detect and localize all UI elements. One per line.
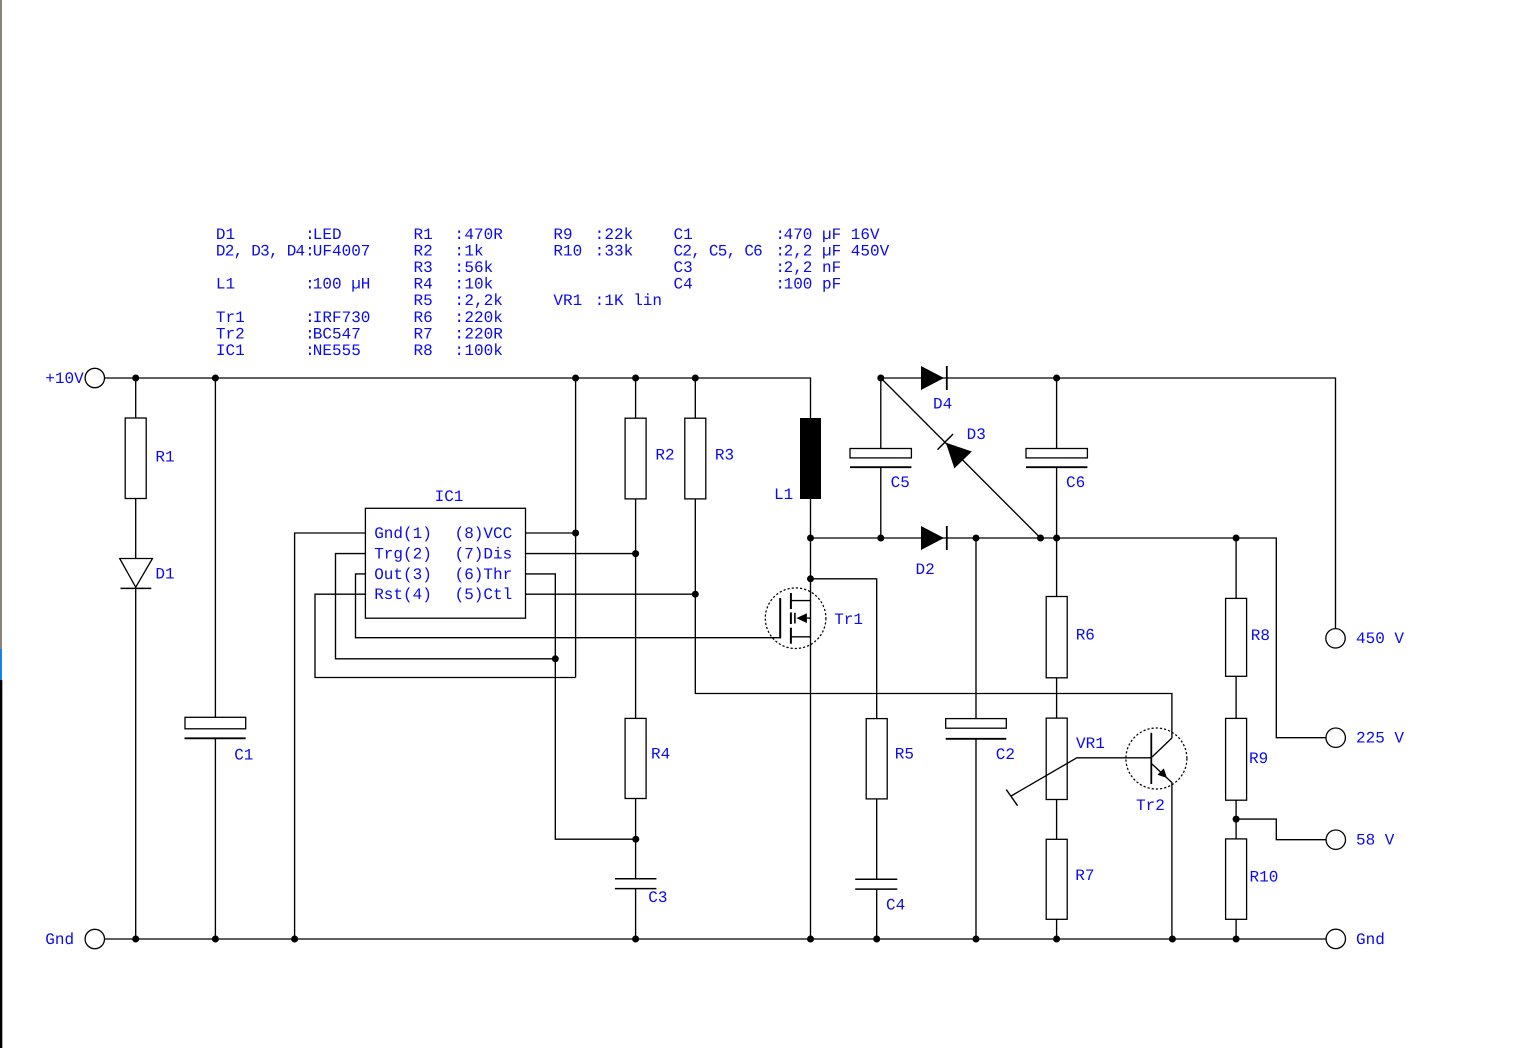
label R10 (1250, 869, 1279, 887)
svg-text:R4: R4 (651, 746, 670, 764)
svg-text:L1: L1 (774, 486, 793, 504)
svg-text::: : (454, 325, 464, 343)
junction dot Dis node (632, 550, 639, 557)
svg-text:IC1: IC1 (216, 342, 245, 360)
junction dot Ctl R3 node (692, 591, 699, 598)
svg-text:220R: 220R (464, 325, 503, 343)
IC1 NE555 box (365, 508, 525, 618)
svg-text:C4: C4 (886, 897, 905, 915)
label R2 (655, 447, 674, 465)
svg-text:R3: R3 (414, 259, 433, 277)
wire ground rail (105, 938, 1327, 940)
svg-text:R1: R1 (155, 449, 174, 467)
resistor R1 (125, 418, 146, 499)
label VR1 (1076, 735, 1105, 753)
svg-text:58 V: 58 V (1356, 832, 1395, 850)
wire C6 branch (1056, 378, 1058, 538)
label C3 (648, 889, 667, 907)
label R5 (895, 746, 914, 764)
svg-text:C2, C5, C6: C2, C5, C6 (674, 242, 763, 260)
wire R1 D1 branch (135, 378, 137, 939)
wire IC1 pin1 Gnd to ground (295, 533, 366, 939)
wire C1 branch (214, 378, 216, 939)
svg-text:C3: C3 (648, 889, 667, 907)
label D2 (916, 561, 935, 579)
junction dot R4 C3 node (632, 836, 639, 843)
svg-text:R8: R8 (1251, 627, 1270, 645)
svg-text::: : (454, 309, 464, 327)
junction dot R9 R10 node (1233, 816, 1240, 823)
svg-text:C1: C1 (674, 226, 693, 244)
label R6 (1076, 627, 1095, 645)
svg-text:R1: R1 (414, 226, 433, 244)
resistor R9 (1226, 718, 1247, 800)
svg-text:2,2 µF 450V: 2,2 µF 450V (784, 242, 890, 260)
diode D2 (921, 526, 947, 550)
svg-text::: : (595, 292, 605, 310)
svg-text:R4: R4 (414, 276, 433, 294)
wire IC1 pin3 Out to Tr1 gate (356, 574, 781, 638)
svg-text:R2: R2 (414, 242, 433, 260)
svg-text:D3: D3 (967, 426, 986, 444)
svg-text:D4: D4 (933, 396, 952, 414)
svg-text:(6)Thr: (6)Thr (455, 566, 513, 584)
svg-text:IRF730: IRF730 (313, 309, 371, 327)
terminal 450V (1326, 629, 1405, 648)
left edge strip grey (0, 0, 2, 649)
junction dot Trg Thr node (552, 655, 559, 662)
svg-text:R2: R2 (655, 447, 674, 465)
label C1 (234, 747, 253, 765)
label R3 (715, 447, 734, 465)
parts list column B values (464, 226, 503, 360)
resistor R10 (1226, 839, 1247, 919)
parts list column A values (313, 226, 371, 360)
svg-text:R10: R10 (1250, 869, 1279, 887)
label D3 (967, 426, 986, 444)
label C4 (886, 897, 905, 915)
label R8 (1251, 627, 1270, 645)
svg-text:Gnd(1): Gnd(1) (374, 525, 432, 543)
junction dots top rail (132, 375, 1060, 382)
svg-text::: : (454, 276, 464, 294)
svg-text::: : (454, 292, 464, 310)
svg-text:R5: R5 (895, 746, 914, 764)
svg-text:1K lin: 1K lin (604, 292, 662, 310)
wire C5 branch (880, 378, 882, 538)
svg-text:C2: C2 (996, 746, 1015, 764)
parts list column B names (414, 226, 433, 360)
svg-text:Tr2: Tr2 (216, 325, 245, 343)
svg-text:2,2k: 2,2k (464, 292, 502, 310)
svg-text:1k: 1k (464, 242, 483, 260)
wire R2 R4 C3 branch (635, 378, 637, 939)
parts list column B colons (454, 226, 464, 360)
label D1 (155, 566, 174, 584)
potentiometer VR1 wiper end bar (1006, 790, 1017, 806)
wire boost node rail to 225V (811, 538, 1327, 738)
svg-text:R8: R8 (414, 342, 433, 360)
resistor R4 (625, 718, 646, 798)
parts list column A colons (305, 226, 315, 360)
junction dot VCC Rst node (572, 530, 579, 537)
svg-text:D2, D3, D4: D2, D3, D4 (216, 242, 305, 260)
svg-text:22k: 22k (604, 226, 633, 244)
resistor R2 (625, 418, 646, 499)
label L1 (774, 486, 793, 504)
diode D4 (921, 366, 947, 390)
svg-text:R5: R5 (414, 292, 433, 310)
wire IC1 pin7 Dis to R2 R4 node (526, 553, 636, 555)
svg-text:Tr1: Tr1 (834, 611, 863, 629)
diode D1 LED (120, 559, 153, 589)
terminal Gnd right (1326, 929, 1385, 949)
svg-text:C4: C4 (674, 276, 693, 294)
wire D3 diagonal (881, 378, 1041, 538)
svg-text:D1: D1 (155, 566, 174, 584)
svg-text:C3: C3 (674, 259, 693, 277)
svg-text:C6: C6 (1066, 474, 1085, 492)
left edge strip blue (0, 649, 2, 680)
resistor R7 (1046, 839, 1067, 919)
terminal +10V (45, 368, 104, 388)
terminal 225V (1326, 728, 1404, 748)
wire IC1 pin5 Ctl to R3 node (526, 593, 696, 595)
wire C2 branch (975, 538, 977, 939)
svg-text:Rst(4): Rst(4) (374, 586, 432, 604)
svg-text:(8)VCC: (8)VCC (455, 525, 513, 543)
svg-text:450 V: 450 V (1356, 630, 1404, 648)
svg-text:(7)Dis: (7)Dis (455, 546, 513, 564)
svg-text:VR1: VR1 (1076, 735, 1105, 753)
wire IC1 pin4 Rst loop (315, 594, 576, 677)
svg-text:R3: R3 (715, 447, 734, 465)
svg-text:100 µH: 100 µH (313, 276, 371, 294)
resistor R8 (1226, 598, 1247, 676)
label Tr1 (834, 611, 863, 629)
label IC1 (435, 488, 464, 506)
svg-text:Tr1: Tr1 (216, 309, 245, 327)
terminal 58V (1326, 830, 1395, 850)
label R9 (1249, 750, 1268, 768)
svg-text::: : (454, 242, 464, 260)
svg-text:R10: R10 (553, 242, 582, 260)
label Tr2 (1136, 797, 1165, 815)
parts list column A names (216, 226, 305, 360)
junction dots boost rail (807, 535, 1240, 542)
label R1 (155, 449, 174, 467)
svg-text:100k: 100k (464, 342, 502, 360)
svg-text:R9: R9 (553, 226, 572, 244)
svg-text:2,2 nF: 2,2 nF (784, 259, 842, 277)
left edge strip black (0, 680, 2, 1048)
wire IC1 pin6 Thr to R4 C3 node (526, 574, 636, 839)
wire +10V top rail (105, 378, 811, 418)
svg-text:LED: LED (313, 226, 342, 244)
junction dot Tr1 drain node (807, 575, 814, 582)
label D4 (933, 396, 952, 414)
svg-text:R7: R7 (1075, 867, 1094, 885)
wire drain to R5 C4 branch (811, 579, 877, 939)
svg-text:Trg(2): Trg(2) (374, 546, 432, 564)
resistor R3 (685, 418, 706, 499)
svg-text:D1: D1 (216, 226, 235, 244)
wire R6 VR1 R7 branch (1056, 538, 1058, 939)
potentiometer VR1 body (1046, 718, 1067, 799)
wire R8 R9 R10 branch (1235, 538, 1237, 939)
parts list column C (553, 226, 662, 310)
svg-text::: : (454, 226, 464, 244)
svg-text:225 V: 225 V (1356, 730, 1404, 748)
IC1 pin labels left (374, 525, 432, 604)
svg-text:Gnd: Gnd (45, 931, 74, 949)
svg-text:(5)Ctl: (5)Ctl (455, 586, 513, 604)
diode D3 (938, 434, 972, 468)
svg-text:56k: 56k (464, 259, 493, 277)
svg-text:470R: 470R (464, 226, 503, 244)
svg-text:Tr2: Tr2 (1136, 797, 1165, 815)
capacitor C1 (185, 717, 246, 738)
transistor Tr2 BJT (1126, 728, 1187, 939)
potentiometer VR1 wiper arm (1011, 758, 1151, 796)
terminal Gnd left (45, 929, 104, 949)
transistor Tr1 MOSFET (765, 588, 826, 649)
wire IC1 pin8 VCC to +10V (526, 378, 576, 678)
wire HV top rail to 450V (881, 378, 1336, 629)
svg-text:NE555: NE555 (313, 342, 361, 360)
label R7 (1075, 867, 1094, 885)
svg-text:R9: R9 (1249, 750, 1268, 768)
svg-text::: : (454, 342, 464, 360)
svg-text:+10V: +10V (45, 370, 84, 388)
svg-text:D2: D2 (916, 561, 935, 579)
label C2 (996, 746, 1015, 764)
resistor R5 (866, 719, 887, 799)
svg-text::: : (595, 242, 605, 260)
wire 58V tap (1236, 819, 1326, 840)
capacitor C4 (855, 879, 897, 889)
svg-text::: : (454, 259, 464, 277)
svg-text:100 pF: 100 pF (784, 276, 842, 294)
svg-text:L1: L1 (216, 276, 235, 294)
svg-text:R6: R6 (414, 309, 433, 327)
svg-text:UF4007: UF4007 (313, 242, 371, 260)
resistor R6 (1046, 597, 1067, 678)
capacitor C6 (1026, 449, 1087, 468)
svg-text:BC547: BC547 (313, 325, 361, 343)
svg-text:10k: 10k (464, 276, 493, 294)
svg-text:470 µF 16V: 470 µF 16V (784, 226, 880, 244)
svg-text:C1: C1 (234, 747, 253, 765)
svg-text:220k: 220k (464, 309, 502, 327)
svg-text:R6: R6 (1076, 627, 1095, 645)
svg-text:VR1: VR1 (553, 292, 582, 310)
svg-text:IC1: IC1 (435, 488, 464, 506)
capacitor C2 (946, 719, 1007, 739)
wire R3 branch to Tr2 collector (695, 378, 1172, 738)
label R4 (651, 746, 670, 764)
svg-text:33k: 33k (604, 242, 633, 260)
label C5 (891, 474, 910, 492)
svg-text:Out(3): Out(3) (374, 566, 432, 584)
svg-text:C5: C5 (891, 474, 910, 492)
svg-text:R7: R7 (414, 325, 433, 343)
label C6 (1066, 474, 1085, 492)
wire IC1 pin2 Trg loop (336, 554, 556, 659)
svg-text:Gnd: Gnd (1356, 931, 1385, 949)
svg-text::: : (595, 226, 605, 244)
inductor L1 (800, 418, 821, 499)
capacitor C3 (615, 879, 657, 889)
IC1 pin labels right (455, 525, 513, 604)
parts list column D (674, 226, 890, 294)
capacitor C5 (850, 449, 911, 468)
wire L1 Tr1 drain source branch (810, 499, 812, 939)
junction dots ground rail (132, 936, 1239, 943)
